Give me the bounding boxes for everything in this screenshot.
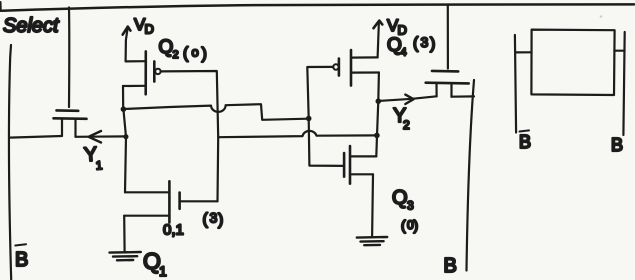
arrowhead pointing right on Y2 wire [405, 95, 413, 104]
svg-text:(: ( [413, 35, 419, 52]
transistor Q2 gate bubble [155, 69, 160, 74]
net label Y2 [393, 105, 410, 132]
power VD arrow (right) [378, 22, 379, 58]
arrowhead pointing left on Y1 wire [89, 131, 102, 143]
svg-text:): ) [414, 217, 419, 233]
transistor Q1 (left driver NMOS) drain stub [125, 191, 169, 193]
node Y1 junction dot [121, 106, 127, 112]
transistor Q2 (left depletion load) drain stub [126, 60, 146, 62]
label Q1 [143, 248, 167, 279]
inset label B-bar [519, 130, 531, 152]
wire Q3 source down to ground [371, 174, 374, 237]
transistor Q3 source stub [350, 173, 373, 175]
svg-text:B: B [611, 135, 623, 155]
svg-text:B: B [444, 255, 457, 277]
node Y1 arrow-wire junction [123, 134, 128, 139]
node Y2 junction dot [376, 98, 382, 104]
transistor Q6 left stub to Y2 wire [435, 83, 437, 96]
wire Y2 to right pass transistor with right arrow [378, 96, 436, 101]
wire Select word line (top horizontal) [2, 4, 634, 10]
svg-text:2: 2 [403, 118, 410, 132]
transistor Q5 right drain stub [74, 119, 76, 137]
inset cell: B line [623, 32, 624, 135]
transistor Q4 (right depletion load) gate bubble [333, 64, 338, 69]
svg-text:B: B [519, 132, 531, 152]
svg-text:B: B [15, 249, 28, 271]
svg-text:Q: Q [392, 187, 408, 209]
wire gate drop from Select line to Q5 [68, 8, 71, 108]
wire Q4 source down to node Y2 [377, 73, 380, 102]
wire cross-couple B from Q1/Q2 gate line to Y2 drop (hop over vertical) [218, 131, 377, 137]
wire Q5 source to B-bar line [10, 136, 63, 138]
svg-text:1: 1 [159, 263, 167, 279]
transistor Q6 right stub [450, 83, 452, 96]
svg-text:): ) [218, 212, 223, 229]
transistor Q3 channel bar [349, 146, 352, 184]
net label Y1 [83, 143, 103, 173]
transistor Q3 (right driver NMOS) drain stub [351, 155, 377, 157]
svg-text:1: 1 [95, 158, 103, 172]
inset cell box [531, 30, 614, 95]
wire B bit line (right vertical) [467, 80, 475, 271]
node left edge tick [0, 2, 2, 11]
wire Q5 drain to node Y1 with left arrow [76, 135, 127, 138]
transistor Q1 source stub [124, 215, 169, 217]
power VD arrow (left) [126, 28, 128, 62]
inset left stub [516, 51, 532, 53]
wire gate drop from Select line to Q6 [447, 5, 449, 69]
svg-text:): ) [202, 46, 207, 63]
svg-text:4: 4 [401, 47, 407, 59]
transistor Q4 gate bar [338, 59, 341, 76]
node gate junction dot [306, 116, 312, 122]
transistor Q6 channel bar [426, 81, 469, 84]
transistor Q2 gate bar [153, 61, 156, 81]
inset right stub [614, 50, 624, 52]
svg-text:(: ( [183, 45, 189, 62]
svg-text:(: ( [203, 211, 209, 228]
wire Q2 gate right then down to Q1 gate [161, 71, 219, 201]
wire node to Q4 gate (up) [307, 67, 333, 119]
wire Y2 down to Q3 drain [376, 101, 378, 156]
wire Y1 node down to Q1 drain [123, 109, 126, 192]
svg-text:Q: Q [159, 37, 174, 58]
svg-text:3: 3 [407, 199, 414, 213]
svg-text:2: 2 [173, 49, 179, 61]
svg-text:(: ( [401, 217, 406, 233]
transistor Q4 drain stub [351, 56, 378, 58]
wire node to Q3 gate (down) [309, 119, 344, 166]
svg-text:Select: Select [3, 15, 60, 37]
label VD right [387, 16, 407, 38]
wire B-bar bit line (left vertical) [9, 45, 11, 280]
transistor Q1 channel bar [168, 181, 171, 222]
transistor Q5 left source stub [61, 119, 63, 136]
transistor Q1 gate bar [178, 193, 181, 209]
svg-text:0,1: 0,1 [163, 222, 184, 239]
label Q2 (0) [159, 37, 207, 63]
wire Q1 source down to ground [123, 216, 126, 251]
transistor Q3 gate bar [343, 153, 346, 177]
transistor Q6 (right access/pass NMOS) gate bar [432, 70, 458, 73]
svg-text:3: 3 [210, 210, 218, 226]
label Q3 (0) [392, 187, 418, 233]
transistor Q4 source stub [351, 71, 379, 73]
svg-text:D: D [145, 22, 154, 37]
node line-B junction dot [374, 133, 380, 139]
label VD left [134, 15, 154, 37]
svg-text:): ) [430, 36, 435, 53]
transistor Q2 source stub [123, 85, 146, 87]
wire cross-couple A from Y1 to right gates (hop over vertical) [123, 104, 308, 120]
svg-text:o: o [192, 45, 199, 60]
net label B-bar [15, 244, 28, 271]
transistor Q2 channel bar [144, 51, 147, 94]
transistor Q1 gate wire [181, 200, 218, 202]
transistor Q5 channel bar [54, 117, 87, 120]
transistor Q4 channel bar [350, 50, 353, 86]
transistor Q5 (left access/pass NMOS) gate bar [57, 109, 79, 112]
svg-text:3: 3 [421, 34, 429, 50]
wire Q2 source down to node Y1 [122, 86, 124, 109]
inset cell: B-bar line [515, 35, 516, 133]
ground under Q1 [110, 252, 141, 260]
label Q4 (3) [387, 34, 435, 59]
wire Q6 to B line [452, 95, 475, 97]
speck [600, 15, 603, 18]
ground under Q3 [357, 237, 387, 245]
